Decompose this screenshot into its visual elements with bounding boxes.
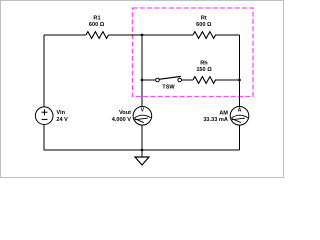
resistor R1 bbox=[86, 16, 109, 39]
wire top right bbox=[215, 34, 240, 36]
svg-text:R1: R1 bbox=[93, 16, 100, 22]
wire right vertical upper bbox=[239, 35, 241, 107]
svg-text:600 Ω: 600 Ω bbox=[89, 22, 105, 28]
ground bbox=[135, 150, 149, 165]
svg-text:Vin: Vin bbox=[56, 110, 65, 116]
wire switch row left bbox=[142, 79, 156, 81]
switch TSW bbox=[156, 76, 182, 90]
resistor Rh bbox=[193, 61, 216, 84]
wire switch row right bbox=[215, 79, 240, 81]
dashed selection box bbox=[133, 8, 254, 97]
junction node A switch row bbox=[141, 79, 144, 82]
svg-text:Rh: Rh bbox=[200, 61, 208, 67]
svg-text:TSW: TSW bbox=[162, 85, 175, 91]
svg-text:600 Ω: 600 Ω bbox=[196, 22, 212, 28]
svg-text:4.000 V: 4.000 V bbox=[112, 117, 132, 123]
wire switch row middle bbox=[182, 79, 194, 81]
svg-text:AM: AM bbox=[219, 110, 228, 116]
svg-text:V: V bbox=[141, 108, 145, 114]
voltmeter Vout bbox=[112, 107, 152, 126]
wire right vertical lower bbox=[239, 125, 241, 150]
wire middle vertical upper bbox=[141, 35, 143, 107]
wire left vertical upper bbox=[43, 35, 45, 107]
resistor Rt bbox=[193, 16, 216, 39]
wire left vertical lower bbox=[43, 125, 45, 151]
svg-text:A: A bbox=[238, 108, 242, 114]
wire top left bbox=[44, 34, 86, 36]
junction node B switch row bbox=[238, 79, 241, 82]
wire top middle bbox=[109, 34, 194, 36]
svg-text:150 Ω: 150 Ω bbox=[196, 67, 212, 73]
svg-text:Vout: Vout bbox=[119, 110, 131, 116]
wire middle vertical lower bbox=[141, 125, 143, 150]
junction ground node bbox=[141, 149, 144, 152]
svg-text:33.33 mA: 33.33 mA bbox=[203, 117, 228, 123]
ammeter AM bbox=[203, 107, 248, 126]
svg-text:Rt: Rt bbox=[201, 16, 207, 22]
junction node A top bbox=[141, 34, 144, 37]
source Vin bbox=[35, 107, 68, 125]
wire bottom bbox=[44, 149, 240, 151]
svg-text:24 V: 24 V bbox=[56, 117, 68, 123]
